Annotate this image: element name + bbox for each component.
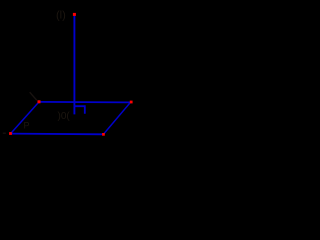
plane alpha: left edge bbox=[11, 102, 39, 134]
plane alpha: right edge bbox=[103, 102, 130, 134]
plane alpha: bottom edge bbox=[11, 133, 104, 136]
point top of line bbox=[73, 13, 76, 16]
point A (top-left corner) bbox=[38, 100, 41, 103]
point B (top-right corner) bbox=[130, 101, 133, 104]
point D (bottom-left corner) bbox=[9, 132, 12, 135]
label dash left of bottom-left corner bbox=[3, 133, 6, 134]
label stroke above top-left corner bbox=[30, 92, 37, 100]
svg-text:P: P bbox=[24, 120, 30, 130]
point C (bottom-right corner) bbox=[102, 133, 105, 136]
line l (vertical perpendicular) bbox=[73, 15, 75, 114]
svg-text:(l): (l) bbox=[56, 10, 66, 22]
right-angle marker at foot bbox=[74, 106, 84, 114]
svg-text:)0(: )0( bbox=[58, 111, 71, 122]
plane alpha: top edge bbox=[39, 101, 130, 104]
